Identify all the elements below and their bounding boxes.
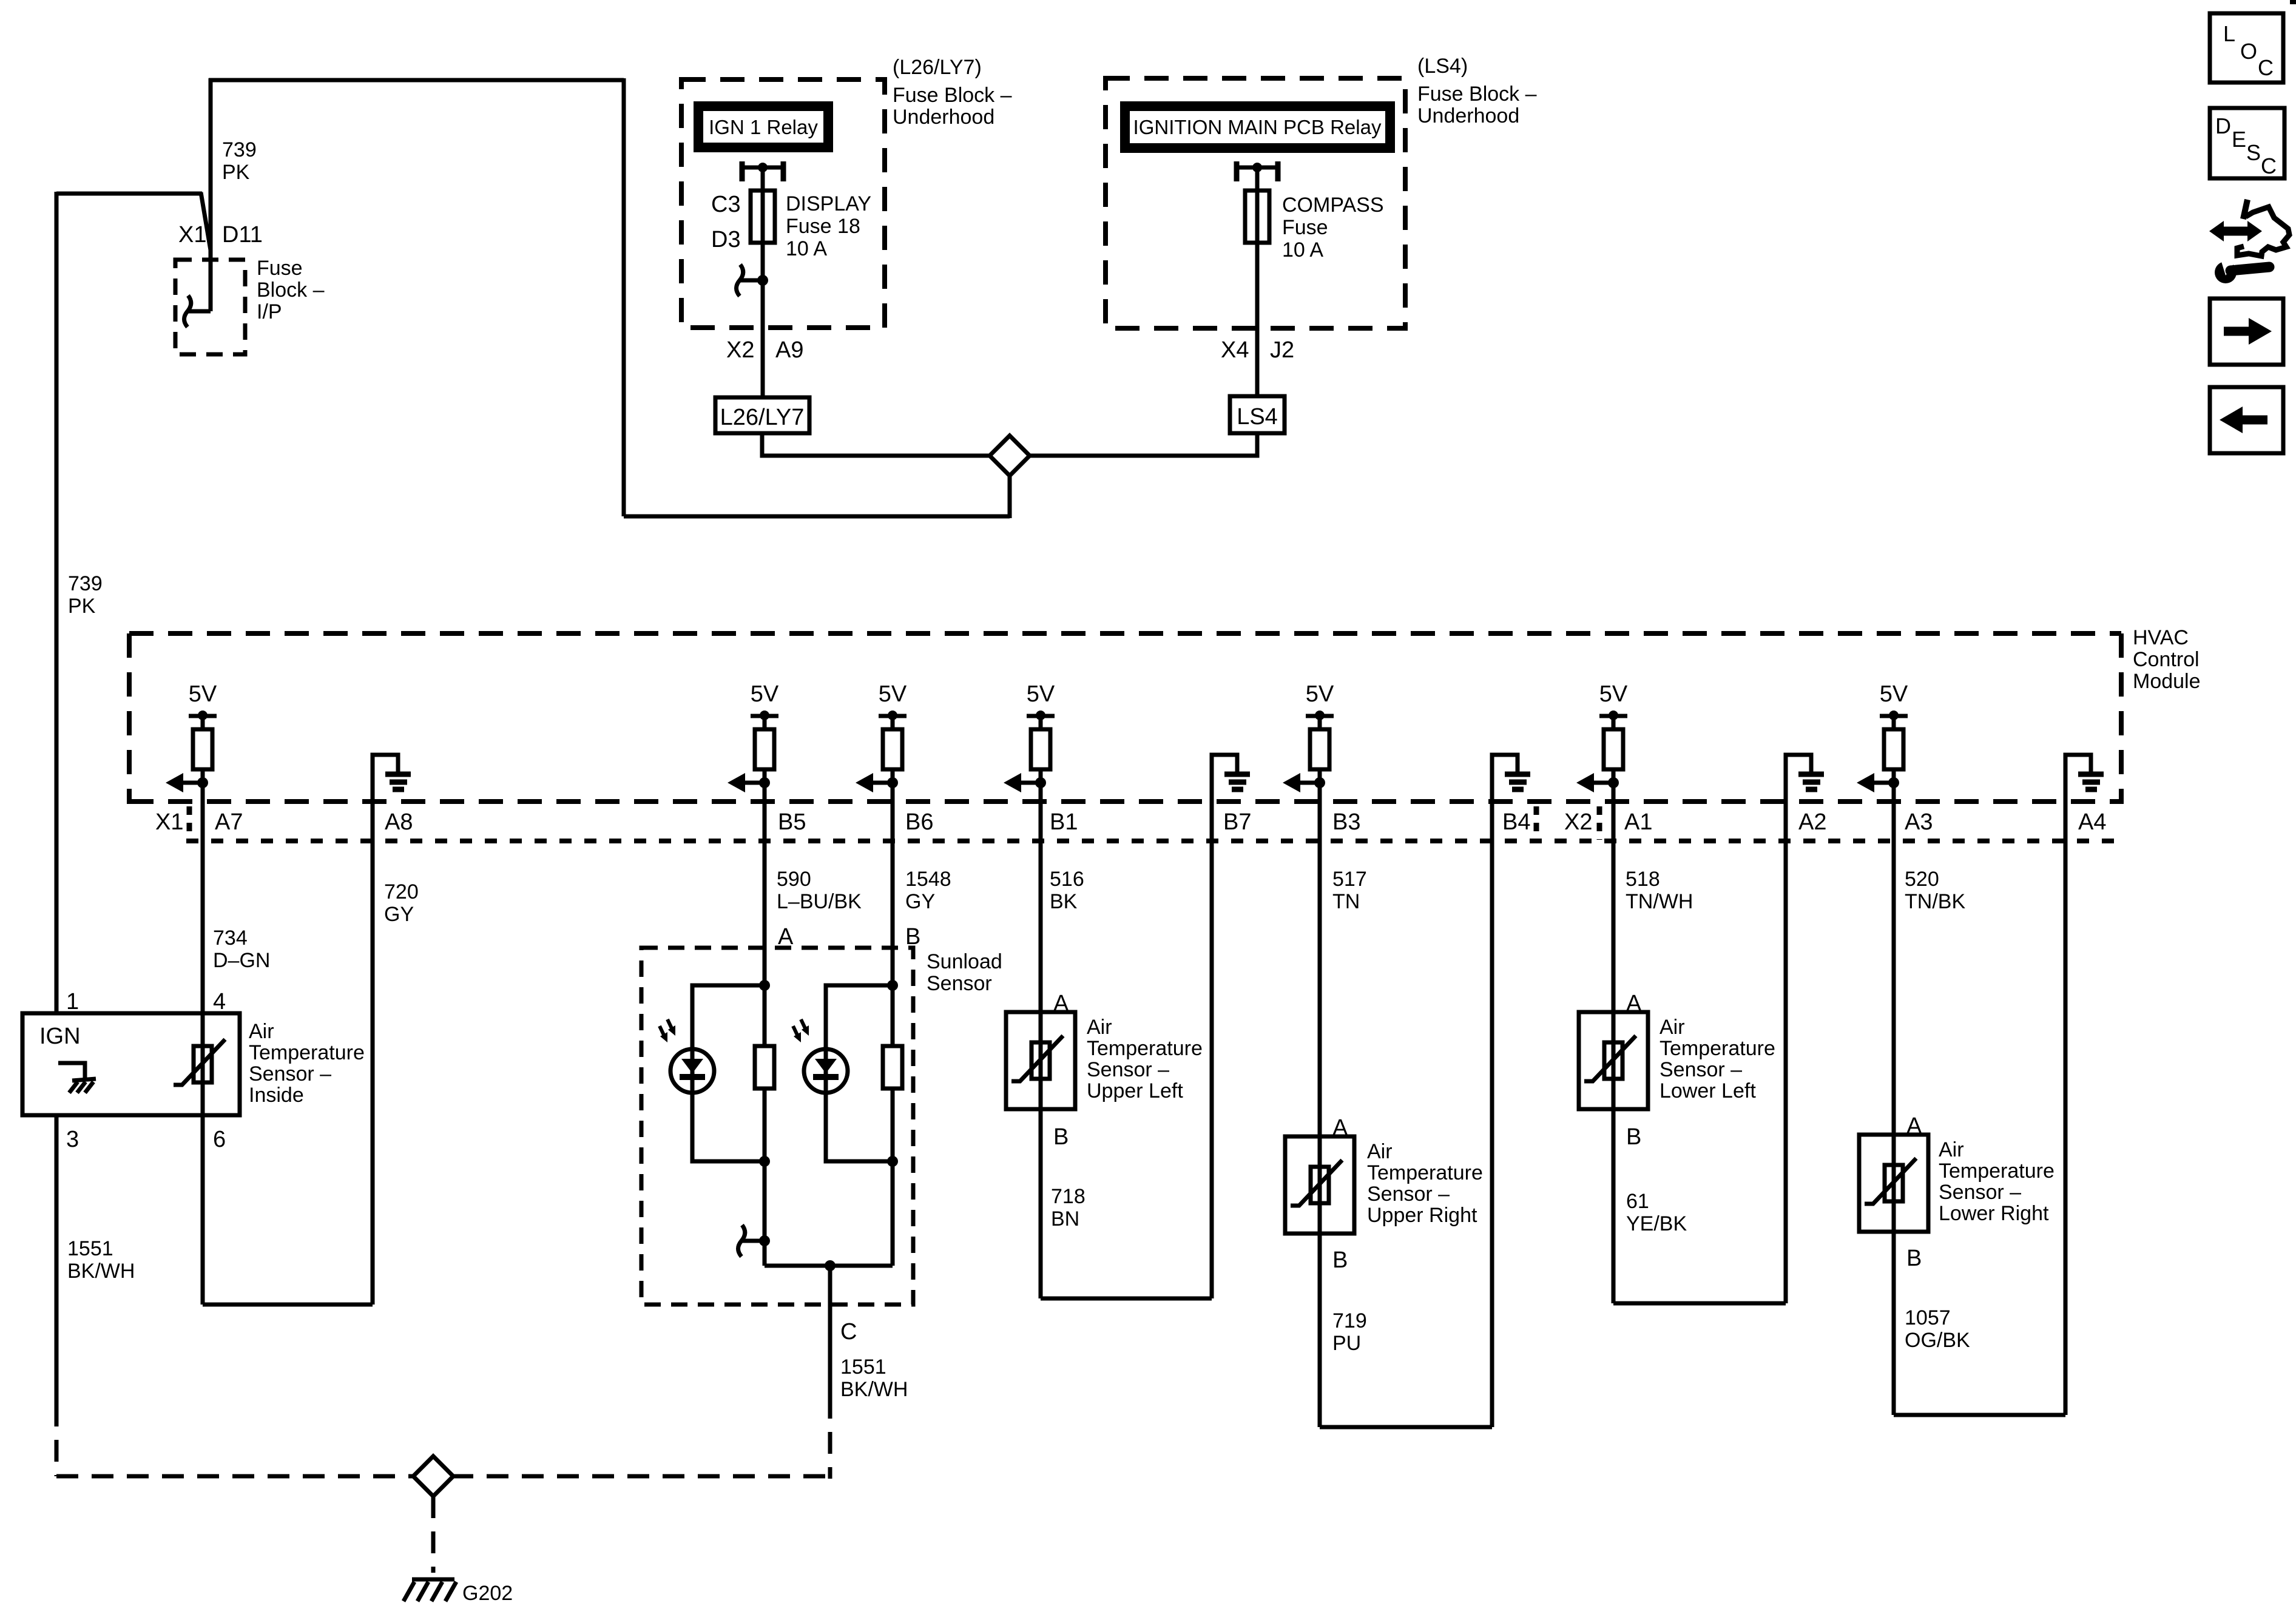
wire IGN pin 3 drop (55, 1115, 59, 1405)
svg-text:Sensor –: Sensor – (1939, 1181, 2021, 1204)
svg-text:517: 517 (1332, 868, 1367, 891)
dashed ground rail right (451, 1474, 830, 1479)
HVAC control module dashed outline right (2119, 633, 2124, 804)
ground symbol (pin A4) (2065, 755, 2104, 843)
wire pin B7 riser (1210, 843, 1214, 1298)
wire 734 D-GN pin A7 down to sensor (201, 786, 205, 1015)
svg-text:Fuse: Fuse (257, 257, 303, 280)
junction dots B6 branch (887, 980, 898, 991)
svg-text:YE/BK: YE/BK (1626, 1212, 1687, 1235)
HVAC control module dashed outline top (129, 631, 2121, 636)
svg-text:Sensor –: Sensor – (1367, 1183, 1450, 1206)
svg-text:E: E (2232, 127, 2246, 152)
svg-text:A4: A4 (2078, 809, 2106, 835)
svg-text:B6: B6 (905, 809, 933, 835)
wire pin A4 riser (2064, 843, 2068, 1415)
svg-text:B: B (905, 924, 920, 950)
wire 61 YE/BK sensor to A2 riser (1613, 1301, 1786, 1306)
wire jog joining branch to D11 pin (201, 192, 211, 250)
HVAC control module dashed outline left (127, 633, 132, 804)
svg-text:PK: PK (68, 595, 96, 618)
dashed wire to G202 (431, 1496, 436, 1573)
svg-text:A: A (1332, 1115, 1348, 1141)
wire 590 L-BU/BK pin B5 down to sunload sensor (763, 786, 767, 1266)
connector separator right of X2 (1597, 806, 1602, 840)
svg-text:BN: BN (1051, 1207, 1079, 1230)
wire 1548 GY pin B6 down to sunload sensor (891, 786, 895, 1266)
svg-text:10 A: 10 A (1282, 238, 1323, 262)
ground symbol (pin B7) (1212, 755, 1250, 843)
svg-text:720: 720 (384, 880, 419, 903)
svg-text:Temperature: Temperature (249, 1041, 365, 1064)
connector separator left of X2 (1534, 806, 1539, 840)
svg-text:739: 739 (68, 572, 103, 595)
wire sunload bottom bus (765, 1264, 893, 1268)
svg-text:X4: X4 (1221, 337, 1249, 363)
svg-text:719: 719 (1332, 1309, 1367, 1332)
svg-text:5V: 5V (751, 681, 779, 707)
wire 739 PK lower horizontal to splice (624, 515, 1010, 519)
svg-text:718: 718 (1051, 1185, 1086, 1208)
icon harness repair (double arrow, connector outline, wrench) (2209, 200, 2289, 283)
5V source with resistor and output arrow (pin B1) (1004, 711, 1055, 792)
splice diamond S1 (990, 436, 1030, 476)
connector hook terminal below fuse (737, 265, 763, 296)
relay IGN 1 Relay box (698, 106, 828, 147)
svg-text:IGN: IGN (39, 1024, 81, 1049)
svg-text:Sensor –: Sensor – (1660, 1058, 1742, 1081)
svg-text:S: S (2246, 140, 2261, 165)
wire from relay through fuse to X4/J2 (1255, 171, 1260, 398)
dashed ground rail left (56, 1474, 415, 1479)
svg-text:A: A (778, 924, 794, 950)
svg-text:Fuse 18: Fuse 18 (786, 215, 860, 238)
svg-text:(L26/LY7): (L26/LY7) (893, 56, 982, 79)
svg-text:TN: TN (1332, 890, 1360, 913)
svg-text:Sensor: Sensor (927, 972, 992, 995)
chassis ground G202 (412, 1578, 454, 1582)
svg-text:A1: A1 (1624, 809, 1652, 835)
svg-text:HVAC: HVAC (2133, 626, 2189, 649)
svg-text:590: 590 (777, 868, 811, 891)
svg-text:X2: X2 (1564, 809, 1592, 835)
svg-text:Sunload: Sunload (927, 950, 1002, 973)
svg-text:COMPASS: COMPASS (1282, 194, 1384, 217)
svg-text:L26/LY7: L26/LY7 (720, 405, 805, 430)
svg-text:Upper Right: Upper Right (1367, 1204, 1477, 1227)
box IGN with air temperature sensor inside (22, 1013, 240, 1115)
5V source with resistor and output arrow (pin B3) (1283, 711, 1334, 792)
svg-text:1057: 1057 (1905, 1306, 1951, 1329)
svg-text:518: 518 (1626, 868, 1660, 891)
fuse COMPASS Fuse 10A (1245, 191, 1269, 243)
svg-text:BK/WH: BK/WH (840, 1378, 908, 1401)
wire 719 PU sensor to B4 riser (1320, 1425, 1492, 1430)
svg-text:Air: Air (1660, 1016, 1685, 1039)
svg-text:Air: Air (1939, 1138, 1964, 1161)
svg-text:Block –: Block – (257, 279, 325, 302)
dashed wire 1551 BK/WH to ground rail (828, 1397, 832, 1479)
svg-text:DISPLAY: DISPLAY (786, 192, 871, 215)
svg-text:Air: Air (249, 1020, 274, 1043)
HVAC control module dashed outline bottom (129, 799, 2121, 804)
svg-text:BK/WH: BK/WH (67, 1260, 135, 1283)
svg-text:10 A: 10 A (786, 237, 827, 260)
wire 720 GY pin A8 riser (371, 843, 375, 1305)
internal ground branch inside IGN (58, 1063, 85, 1080)
box L26/LY7 (715, 397, 809, 433)
svg-text:3: 3 (66, 1127, 79, 1152)
svg-text:Module: Module (2133, 670, 2201, 693)
svg-text:739: 739 (222, 138, 257, 161)
svg-text:D11: D11 (222, 222, 263, 248)
svg-text:Lower Left: Lower Left (1660, 1079, 1756, 1102)
wire 739 PK right vertical drop (622, 78, 626, 516)
svg-text:LS4: LS4 (1237, 404, 1278, 430)
svg-text:A8: A8 (385, 809, 413, 835)
sensor box air temperature sensor upper right (1285, 1136, 1354, 1234)
svg-text:B1: B1 (1050, 809, 1078, 835)
svg-text:A: A (1906, 1113, 1922, 1139)
svg-text:5V: 5V (879, 681, 907, 707)
junction dot below fuse (757, 275, 768, 286)
svg-text:Upper Left: Upper Left (1087, 1079, 1183, 1102)
wire through air temperature sensor inside (201, 1013, 205, 1305)
svg-text:520: 520 (1905, 868, 1939, 891)
svg-text:C: C (840, 1319, 857, 1345)
svg-text:C: C (2258, 55, 2274, 80)
svg-text:6: 6 (213, 1127, 226, 1152)
wire photodiode 1 branch (692, 985, 765, 1161)
ground symbol (pin A8) (373, 755, 411, 843)
wire 520 TN/BK pin A3 down to sensor (1892, 786, 1896, 1415)
svg-text:B: B (1053, 1124, 1069, 1150)
svg-text:X2: X2 (726, 337, 754, 363)
svg-text:Fuse Block –: Fuse Block – (1417, 83, 1537, 106)
thermistor lower right (1865, 1158, 1916, 1204)
svg-text:GY: GY (384, 903, 414, 926)
svg-text:A2: A2 (1798, 809, 1826, 835)
svg-text:PK: PK (222, 161, 250, 184)
photodiode PD2 (793, 1019, 848, 1093)
junction node pin C (825, 1260, 836, 1271)
relay pin terminal bracket (1237, 161, 1278, 181)
wire 518 TN/WH pin A1 down to sensor (1612, 786, 1616, 1303)
svg-text:Fuse Block –: Fuse Block – (893, 84, 1012, 107)
svg-text:J2: J2 (1270, 337, 1294, 363)
5V source with resistor and output arrow (pin B5) (728, 711, 778, 792)
page corner mark (2290, 0, 2296, 4)
svg-text:5V: 5V (1306, 681, 1334, 707)
svg-text:L: L (2223, 21, 2235, 46)
wire from relay through fuse to X2/A9 (761, 171, 765, 399)
svg-text:Temperature: Temperature (1087, 1037, 1203, 1060)
svg-text:516: 516 (1050, 868, 1084, 891)
svg-text:I/P: I/P (257, 300, 282, 323)
5V source with resistor and output arrow (pin A3) (1857, 711, 1908, 792)
svg-text:B4: B4 (1502, 809, 1530, 835)
5V source with resistor and output arrow (pin B6) (856, 711, 907, 792)
svg-text:Temperature: Temperature (1660, 1037, 1775, 1060)
svg-text:1548: 1548 (905, 868, 951, 891)
svg-text:BK: BK (1050, 890, 1078, 913)
svg-text:C: C (2261, 154, 2277, 178)
wire L26/LY7 to splice (762, 433, 991, 456)
svg-text:C3: C3 (711, 192, 741, 217)
wire 516 BK pin B1 down to sensor (1039, 786, 1043, 1298)
fuse block underhood (LS4) dashed outline (1106, 78, 1405, 328)
thermistor lower left (1584, 1036, 1636, 1081)
icon forward arrow box (2210, 299, 2283, 365)
svg-text:D: D (2215, 113, 2231, 138)
svg-text:OG/BK: OG/BK (1905, 1329, 1970, 1352)
wire pin 6 to A8 loop (203, 1303, 373, 1307)
splice diamond S2 (413, 1456, 453, 1496)
svg-text:Temperature: Temperature (1367, 1161, 1483, 1184)
svg-text:B: B (1626, 1124, 1641, 1150)
svg-text:A9: A9 (775, 337, 803, 363)
svg-text:G202: G202 (462, 1582, 513, 1605)
svg-text:Inside: Inside (249, 1084, 304, 1107)
wire 739 PK top horizontal (209, 78, 624, 83)
wire 1057 OG/BK sensor to A4 riser (1894, 1413, 2065, 1417)
connector hook terminal inside sunload sensor (738, 1225, 765, 1257)
5V source with resistor and output arrow (pin A7) (166, 711, 217, 792)
ground symbol (pin A2) (1786, 755, 1824, 843)
svg-text:(LS4): (LS4) (1417, 55, 1468, 78)
svg-text:B5: B5 (778, 809, 806, 835)
svg-text:TN/WH: TN/WH (1626, 890, 1693, 913)
fuse DISPLAY Fuse 18 10A (751, 191, 775, 243)
svg-text:X1: X1 (155, 809, 183, 835)
box LS4 (1230, 396, 1285, 433)
svg-text:L–BU/BK: L–BU/BK (777, 890, 862, 913)
svg-text:A: A (1626, 991, 1642, 1016)
icon LOC box (2210, 13, 2283, 83)
icon back arrow box (2210, 387, 2283, 453)
svg-text:GY: GY (905, 890, 935, 913)
svg-text:Lower Right: Lower Right (1939, 1202, 2049, 1225)
thermistor air temperature sensor inside (174, 1039, 225, 1085)
wire 739 PK vertical into fuse block I/P pin D11 (209, 78, 213, 311)
svg-text:A: A (1053, 991, 1069, 1016)
svg-text:Underhood: Underhood (1417, 104, 1519, 127)
svg-text:X1: X1 (178, 222, 206, 248)
wire pin A2 riser (1784, 843, 1788, 1303)
svg-text:1551: 1551 (67, 1237, 113, 1260)
sensor box air temperature sensor lower left (1579, 1012, 1648, 1109)
svg-text:5V: 5V (1599, 681, 1628, 707)
svg-text:734: 734 (213, 927, 248, 950)
svg-text:B7: B7 (1223, 809, 1251, 835)
svg-text:Air: Air (1087, 1016, 1112, 1039)
svg-text:Underhood: Underhood (893, 106, 994, 129)
wire LS4 to splice (1028, 433, 1257, 456)
relay IGNITION MAIN PCB Relay box (1125, 106, 1390, 148)
svg-text:4: 4 (213, 989, 226, 1014)
svg-text:TN/BK: TN/BK (1905, 890, 1965, 913)
connector hook terminal D11 (184, 295, 211, 327)
svg-text:Temperature: Temperature (1939, 1160, 2055, 1183)
svg-text:5V: 5V (1880, 681, 1908, 707)
svg-text:IGN 1 Relay: IGN 1 Relay (709, 116, 818, 138)
svg-text:61: 61 (1626, 1190, 1649, 1213)
wire photodiode 2 branch (826, 985, 893, 1161)
svg-text:1: 1 (66, 989, 79, 1014)
svg-text:Fuse: Fuse (1282, 216, 1328, 239)
relay pin terminal bracket (742, 161, 783, 181)
connector separator X1 (187, 806, 192, 840)
wire 517 TN pin B3 down to sensor (1318, 786, 1322, 1427)
svg-text:5V: 5V (1027, 681, 1055, 707)
icon DESC box (2210, 108, 2284, 178)
wire splice bottom leg (1008, 475, 1012, 518)
wire 739 PK left vertical to IGN pin 1 (55, 192, 59, 1015)
photodiode PD1 (660, 1019, 714, 1093)
dashed wire 1551 BK/WH left drop (55, 1405, 59, 1476)
connector dotted line (186, 839, 2124, 843)
resistor R1 (sunload B5 leg) (755, 1046, 774, 1089)
thermistor upper right (1291, 1160, 1342, 1206)
svg-text:B: B (1906, 1246, 1922, 1271)
junction dots B5 branch (759, 980, 770, 991)
svg-text:O: O (2240, 39, 2257, 64)
5V source with resistor and output arrow (pin A1) (1576, 711, 1627, 792)
chassis ground glyph inside IGN (72, 1079, 96, 1081)
svg-text:B: B (1332, 1247, 1348, 1273)
svg-text:A7: A7 (215, 809, 243, 835)
svg-text:IGNITION MAIN PCB Relay: IGNITION MAIN PCB Relay (1133, 116, 1382, 138)
wire pin B4 riser (1490, 843, 1494, 1427)
sensor box air temperature sensor lower right (1859, 1135, 1928, 1232)
svg-text:PU: PU (1332, 1332, 1361, 1355)
sunload sensor dashed outline (641, 948, 913, 1305)
svg-text:Sensor –: Sensor – (249, 1062, 331, 1085)
svg-text:A3: A3 (1905, 809, 1933, 835)
svg-text:D–GN: D–GN (213, 949, 270, 972)
wire 718 BN sensor to B7 riser (1041, 1297, 1212, 1301)
sensor box air temperature sensor upper left (1006, 1012, 1075, 1109)
svg-text:Sensor –: Sensor – (1087, 1058, 1169, 1081)
ground symbol (pin B4) (1492, 755, 1530, 843)
fuse block underhood (L26/LY7) dashed outline (681, 79, 885, 328)
svg-text:1551: 1551 (840, 1355, 886, 1379)
svg-text:Control: Control (2133, 648, 2200, 671)
wire 739 PK left branch horizontal (56, 192, 202, 196)
resistor R2 (sunload B6 leg) (883, 1046, 902, 1089)
svg-text:5V: 5V (189, 681, 217, 707)
fuse block I/P dashed outline (175, 260, 245, 354)
svg-text:Air: Air (1367, 1140, 1393, 1163)
svg-text:D3: D3 (711, 227, 741, 252)
wire pin C drop 1551 BK/WH (828, 1266, 832, 1397)
svg-text:B3: B3 (1332, 809, 1360, 835)
thermistor upper left (1011, 1036, 1063, 1081)
